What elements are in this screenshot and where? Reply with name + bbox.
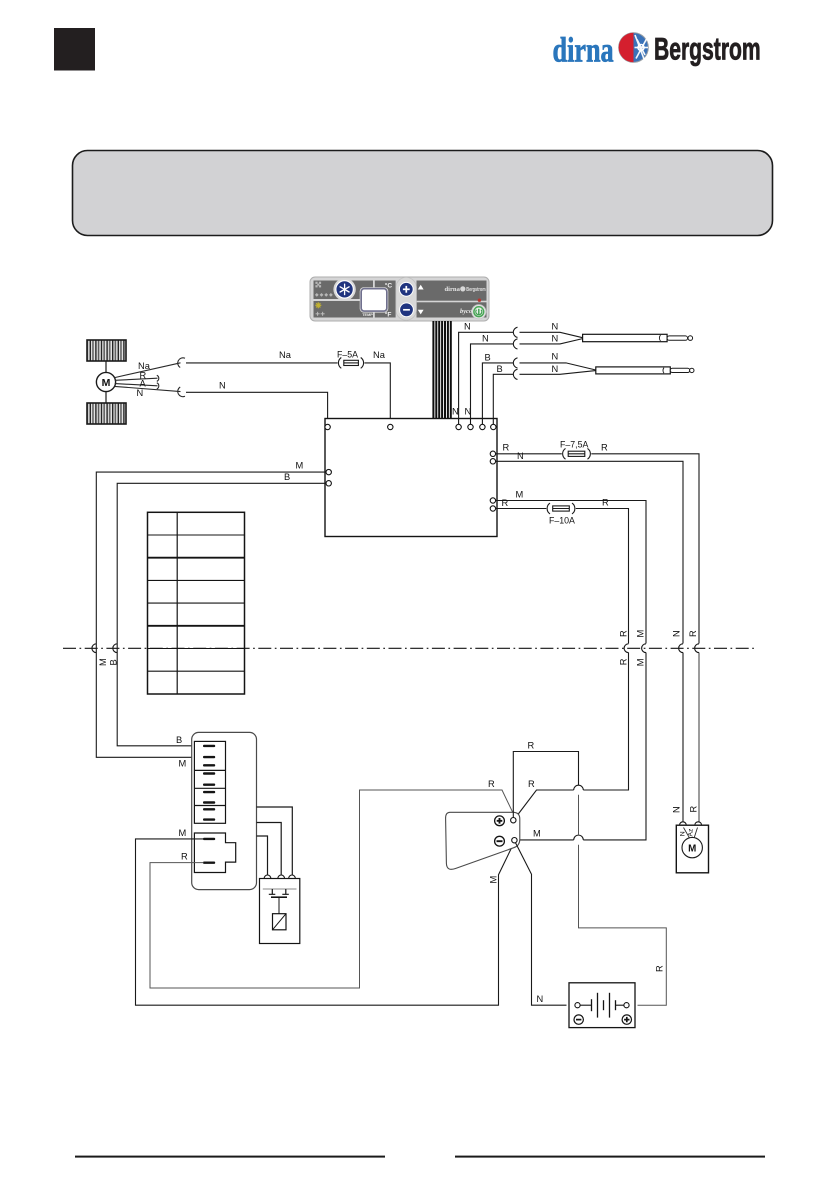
- plus button: [399, 282, 413, 296]
- svg-text:F–10A: F–10A: [549, 516, 575, 526]
- svg-text:N: N: [517, 451, 524, 461]
- svg-text:Bergstrom: Bergstrom: [654, 31, 761, 66]
- wire M to lower pin: [136, 839, 515, 1005]
- relay internal bus: [263, 888, 297, 890]
- wire Na from fuse to unit: [364, 363, 390, 424]
- hop M wire left: [92, 644, 96, 653]
- svg-text:M: M: [635, 659, 645, 667]
- connector on wire N: [178, 387, 185, 397]
- wire M to right: [496, 501, 646, 644]
- wire R to fuse F3: [496, 508, 547, 510]
- svg-text:Na: Na: [138, 361, 151, 371]
- svg-text:M: M: [636, 630, 646, 638]
- wire A stub from motor: [115, 384, 158, 386]
- pins upper block: [203, 745, 215, 821]
- grey title banner: [73, 151, 773, 236]
- logo text Bergstrom: [654, 31, 761, 66]
- relay contact left: [269, 889, 276, 894]
- connector on sensor1 bottom wire: [513, 339, 517, 349]
- lower connector outline: [194, 833, 235, 873]
- motor M2 terminal arcs: [680, 822, 687, 825]
- svg-text:N: N: [672, 630, 682, 637]
- wire N sensor1 bottom after connector: [520, 339, 583, 344]
- two small defrost icons: [316, 312, 325, 316]
- wire M from unit left: [96, 472, 326, 757]
- unit right terminals: [490, 451, 495, 511]
- fuse F-10A: [547, 503, 575, 514]
- up triangle: [418, 285, 424, 290]
- wire R from fuse to right: [591, 454, 699, 644]
- heater resistor block bottom: [87, 403, 126, 424]
- relay armature bar: [271, 896, 287, 898]
- fuse F-5A: [338, 358, 363, 369]
- relay contact right: [282, 889, 289, 894]
- connector on sensor1 top wire: [513, 327, 517, 337]
- wire Na horizontal to fuse: [186, 362, 338, 364]
- svg-text:N: N: [552, 364, 559, 374]
- sensor probe 1 body: [583, 334, 668, 341]
- panel cell display: [375, 281, 396, 318]
- wire N diagonal from motor: [115, 386, 181, 391]
- svg-text:Az: Az: [688, 828, 695, 837]
- svg-text:M: M: [102, 377, 111, 389]
- plus minus capsule: [396, 277, 417, 320]
- svg-text:B: B: [284, 472, 290, 482]
- snowflake button: [333, 278, 355, 300]
- minus button: [400, 303, 414, 317]
- blower motor M1: [96, 372, 115, 391]
- svg-text:N: N: [137, 388, 144, 398]
- hop M wire right2: [642, 644, 646, 653]
- red led: [478, 299, 481, 302]
- black corner square: [54, 28, 95, 71]
- svg-text:R: R: [502, 498, 509, 508]
- wire R to fuse F2: [496, 453, 562, 455]
- wire B sensor2 bottom: [493, 374, 513, 418]
- svg-text:R: R: [655, 965, 665, 972]
- battery plus badge: [622, 1015, 631, 1024]
- svg-text:R: R: [618, 630, 628, 637]
- connector on wire R: [157, 375, 159, 381]
- svg-text:R: R: [688, 806, 698, 813]
- connector housing X1: [192, 732, 257, 889]
- wire N sensor2 top after connector: [520, 363, 596, 370]
- wire R to lower pin: [150, 790, 515, 988]
- svg-text:N: N: [537, 994, 544, 1004]
- unit left terminals: [326, 469, 331, 474]
- pins lower connector: [203, 838, 215, 840]
- wire R lower segment to motor: [698, 653, 700, 822]
- down triangle: [418, 310, 424, 315]
- svg-text:M: M: [489, 876, 499, 884]
- wire R lower segment: [583, 653, 628, 791]
- wire N from minus to battery: [516, 843, 567, 1005]
- svg-text:M: M: [179, 759, 187, 769]
- relay coil box: [273, 914, 287, 930]
- minus symbol: [495, 836, 505, 846]
- wire M into minus terminal: [518, 839, 574, 841]
- svg-text:A: A: [140, 379, 147, 389]
- relay terminal arcs: [264, 875, 271, 878]
- svg-text:B: B: [485, 352, 491, 362]
- svg-text:N: N: [552, 333, 559, 343]
- svg-text:R: R: [688, 630, 698, 637]
- hop B wire left: [113, 644, 117, 653]
- wire N sensor1 top: [459, 332, 514, 418]
- battery minus badge: [574, 1015, 583, 1024]
- svg-text:R: R: [528, 779, 535, 789]
- battery right terminal: [624, 1003, 629, 1008]
- sensor probe 1 tip: [659, 335, 660, 341]
- bycool logo: [460, 308, 477, 315]
- ribbon cable from panel: [433, 321, 450, 419]
- svg-text:M: M: [516, 489, 524, 499]
- svg-text:M: M: [688, 843, 696, 854]
- svg-text:R: R: [181, 851, 188, 861]
- four diamond icons: [315, 293, 333, 297]
- wire Na diagonal from motor: [115, 363, 181, 378]
- power button: [472, 305, 486, 319]
- temp display: [360, 287, 389, 312]
- panel cell top-left: [314, 281, 374, 300]
- svg-text:M: M: [179, 828, 187, 838]
- wire B sensor2 top: [482, 363, 513, 419]
- svg-text:B: B: [176, 735, 182, 745]
- connector on sensor2 bottom wire: [513, 369, 517, 379]
- wire N sensor1 bottom: [471, 344, 514, 419]
- svg-text:M: M: [533, 828, 541, 838]
- sensor probe 2 body: [596, 367, 671, 374]
- svg-text:Na: Na: [279, 350, 292, 360]
- relay coil diagonal: [273, 914, 287, 930]
- wire N sensor1 top after connector: [520, 332, 583, 337]
- svg-text:M: M: [296, 461, 304, 471]
- wire housing to relay 87: [257, 807, 293, 875]
- power junction block body: [446, 812, 520, 869]
- svg-text:Bergstrom: Bergstrom: [466, 286, 486, 293]
- plus symbol: [495, 816, 505, 826]
- connector on wire A: [157, 383, 159, 389]
- svg-text:TEMP: TEMP: [362, 313, 373, 317]
- wire N horizontal to unit: [186, 392, 328, 424]
- centre dash-dot line: [63, 647, 756, 649]
- hop R over vertical: [574, 785, 584, 790]
- wire R loop above junction: [513, 752, 578, 818]
- svg-text:R: R: [528, 740, 535, 750]
- svg-text:M: M: [98, 658, 108, 666]
- terminal block table: [148, 512, 245, 694]
- footer rule left: [75, 1156, 385, 1158]
- yellow heat icon: [315, 302, 321, 308]
- svg-text:dirna: dirna: [553, 31, 614, 69]
- panel brand text: [445, 286, 487, 293]
- svg-text:N: N: [452, 407, 459, 417]
- pin block upper: [194, 741, 225, 823]
- battery plates: [580, 993, 624, 1018]
- svg-text:B: B: [497, 364, 503, 374]
- panel cell right-top: [417, 281, 487, 301]
- control unit A1 box: [325, 419, 497, 537]
- svg-text:R: R: [601, 442, 608, 452]
- svg-text:N: N: [552, 351, 559, 361]
- svg-text:N: N: [672, 806, 682, 813]
- wire R into plus terminal: [516, 790, 574, 817]
- svg-text:R: R: [503, 442, 510, 452]
- minus terminal: [512, 838, 517, 843]
- hop M over vertical: [574, 835, 584, 840]
- wire B from unit left: [117, 483, 326, 746]
- connector on sensor2 top wire: [513, 358, 517, 368]
- svg-text:°C: °C: [385, 281, 393, 289]
- connector on wire Na: [178, 358, 185, 368]
- motor M2 circle: [682, 837, 702, 857]
- svg-text:R: R: [618, 658, 628, 665]
- wire N to right: [496, 461, 683, 643]
- wire housing to relay 30: [257, 823, 282, 876]
- motor M2 inner wires: [684, 828, 690, 839]
- stubs top terminals: [459, 419, 494, 425]
- svg-text:N: N: [482, 333, 489, 343]
- relay K1 box: [260, 879, 300, 944]
- panel cell bottom-left: [314, 301, 374, 318]
- svg-text:N: N: [219, 381, 226, 391]
- wire M lower segment: [583, 653, 646, 840]
- condenser motor M2 box: [676, 825, 708, 873]
- wire R battery leg lower: [579, 845, 667, 1006]
- panel cell right-bottom: [417, 302, 487, 317]
- hop R wire right4: [695, 644, 699, 653]
- logo globe icon: [619, 33, 649, 63]
- svg-text:N: N: [464, 321, 471, 331]
- svg-text:N: N: [552, 321, 559, 331]
- fan icon: [315, 282, 321, 288]
- wire R stub from motor: [115, 378, 158, 380]
- footer rule right: [455, 1156, 765, 1158]
- wire housing to relay 86: [257, 836, 268, 875]
- svg-text:dirna: dirna: [445, 286, 461, 293]
- svg-text:F–7,5A: F–7,5A: [560, 440, 588, 450]
- fuse F-7,5A: [563, 448, 591, 459]
- hop N wire right3: [679, 644, 683, 653]
- wire motor to bottom resistor: [105, 392, 107, 403]
- wire R battery leg: [578, 795, 580, 835]
- unit top terminals: [325, 424, 496, 429]
- svg-text:°F: °F: [385, 311, 392, 319]
- wire R from fuse down: [576, 509, 629, 644]
- logo text dirna: [553, 31, 614, 69]
- sensor probe 2 tip: [663, 368, 664, 374]
- svg-text:Na: Na: [373, 350, 386, 360]
- battery G1 box: [569, 983, 635, 1028]
- relay stem: [278, 897, 280, 914]
- control panel U1 body: [310, 277, 489, 321]
- svg-text:F–5A: F–5A: [337, 350, 358, 360]
- wire N lower segment to motor: [682, 653, 684, 822]
- plus terminal: [511, 818, 516, 823]
- heater resistor block top: [87, 340, 126, 361]
- hop R wire right1: [624, 644, 628, 653]
- battery left terminal: [575, 1003, 580, 1008]
- svg-text:R: R: [488, 779, 495, 789]
- wire N sensor2 bottom after connector: [520, 371, 596, 375]
- wire motor to top resistor: [105, 361, 107, 372]
- svg-text:N: N: [679, 831, 686, 836]
- svg-text:R: R: [602, 497, 609, 507]
